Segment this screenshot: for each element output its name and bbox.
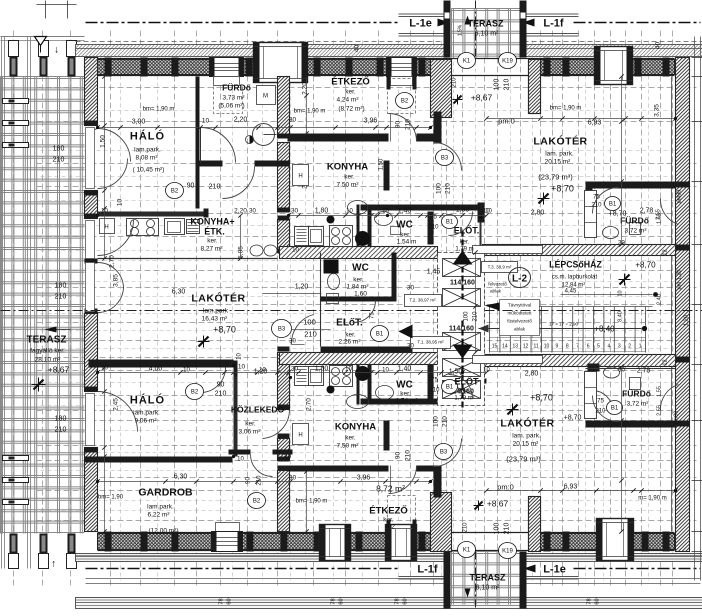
door elöt mid arc bbox=[291, 315, 313, 345]
svg-text:2,78: 2,78 bbox=[637, 368, 651, 375]
door b3 bottom bbox=[434, 439, 462, 467]
bottom roof overhang band bbox=[76, 554, 702, 562]
svg-text:L-2: L-2 bbox=[512, 274, 527, 285]
svg-text:180: 180 bbox=[55, 416, 67, 423]
terrace axis dashdot bbox=[475, 1, 477, 58]
terrace posts top bbox=[9, 41, 19, 57]
közlekedő west wall bbox=[234, 369, 238, 457]
svg-text:lam. park.: lam. park. bbox=[545, 151, 574, 158]
fürdő top-left block walls bbox=[196, 77, 200, 167]
T.2 box bbox=[405, 295, 442, 307]
kitchen top-left stove+sink bbox=[127, 219, 159, 236]
bottom terrace bbox=[451, 552, 520, 598]
svg-text:(8,72 m²): (8,72 m²) bbox=[338, 106, 364, 113]
kitchen top-right row bbox=[295, 227, 309, 246]
fürdő right-bottom fixtures bbox=[604, 367, 620, 378]
svg-text:↓: ↓ bbox=[54, 45, 59, 56]
svg-text:TERASZ: TERASZ bbox=[468, 19, 505, 29]
svg-text:3,72 m²: 3,72 m² bbox=[624, 228, 647, 235]
svg-text:bm= 1,90: bm= 1,90 bbox=[98, 495, 124, 501]
svg-text:2: 2 bbox=[628, 344, 631, 350]
T.1 box bbox=[411, 337, 451, 349]
roof jog lines at terrace top bbox=[399, 13, 447, 15]
svg-text:ker.: ker. bbox=[460, 240, 470, 246]
svg-text:16,43 m²: 16,43 m² bbox=[202, 316, 228, 323]
svg-text:8,08 m²: 8,08 m² bbox=[135, 155, 158, 162]
svg-text:B2: B2 bbox=[401, 99, 409, 105]
svg-text:(12,00 m²): (12,00 m²) bbox=[149, 528, 179, 535]
svg-text:78: 78 bbox=[331, 598, 337, 604]
svg-text:10: 10 bbox=[237, 457, 244, 463]
svg-text:30: 30 bbox=[618, 368, 625, 374]
svg-text:3,06 m²: 3,06 m² bbox=[238, 429, 261, 436]
window W1 top (fürdő) bbox=[210, 58, 244, 77]
svg-text:2,45: 2,45 bbox=[113, 398, 120, 411]
wall piers top bbox=[105, 58, 112, 77]
svg-text:L-1e: L-1e bbox=[409, 18, 432, 30]
svg-text:1,54 m²: 1,54 m² bbox=[395, 398, 418, 405]
junction dots bbox=[96, 214, 99, 217]
svg-text:5: 5 bbox=[597, 344, 600, 350]
fürdő right top walls bbox=[586, 182, 676, 189]
svg-text:1,55: 1,55 bbox=[657, 386, 663, 397]
door háló top-left double bbox=[98, 129, 131, 162]
stair number boxes bbox=[490, 338, 646, 352]
svg-text:75: 75 bbox=[597, 399, 604, 405]
wall étkező east top bbox=[434, 112, 442, 144]
door fürdő right-bottom bbox=[593, 396, 619, 422]
svg-text:pm:0: pm:0 bbox=[498, 117, 515, 126]
svg-text:B1: B1 bbox=[446, 385, 454, 391]
door lakótér left double bbox=[98, 263, 124, 289]
svg-text:1,45: 1,45 bbox=[427, 269, 441, 276]
section line L-1 bottom bbox=[86, 568, 400, 570]
svg-text:30: 30 bbox=[289, 339, 296, 345]
svg-text:210: 210 bbox=[504, 79, 511, 91]
svg-text:30: 30 bbox=[291, 366, 299, 373]
svg-text:2,80: 2,80 bbox=[531, 210, 545, 217]
svg-text:210: 210 bbox=[428, 225, 439, 231]
door fürdő right-top bbox=[593, 188, 619, 214]
svg-text:8,40: 8,40 bbox=[618, 311, 624, 322]
door b3 top bbox=[434, 143, 462, 171]
lakótér right-bottom partial wall bbox=[467, 359, 473, 384]
door háló bottom in wall bbox=[201, 368, 226, 393]
svg-text:78: 78 bbox=[395, 598, 401, 604]
svg-text:H: H bbox=[104, 225, 108, 231]
wc/elot mid block west boundary bbox=[320, 253, 322, 347]
svg-text:3,96: 3,96 bbox=[357, 475, 371, 482]
svg-text:7,50 m²: 7,50 m² bbox=[336, 182, 359, 189]
slope arrow bbox=[465, 16, 471, 25]
svg-text:lam.park.: lam.park. bbox=[133, 410, 160, 417]
boiler black top bbox=[355, 231, 370, 246]
svg-text:HÁLÓ: HÁLÓ bbox=[130, 130, 165, 143]
H radiator box top-left bbox=[100, 219, 115, 234]
dimension chains with ticks bbox=[98, 127, 431, 129]
wc mid east wall bbox=[392, 253, 397, 302]
svg-text:10: 10 bbox=[618, 290, 624, 296]
svg-text:78: 78 bbox=[587, 598, 593, 604]
svg-text:30: 30 bbox=[289, 475, 297, 482]
svg-text:KONYHA+: KONYHA+ bbox=[190, 217, 234, 227]
svg-text:210: 210 bbox=[405, 450, 412, 461]
svg-text:lam.park.: lam.park. bbox=[134, 147, 161, 154]
svg-text:210: 210 bbox=[405, 119, 412, 130]
svg-text:6,10 m²: 6,10 m² bbox=[476, 585, 500, 592]
black unit left of WC mid bbox=[324, 260, 339, 274]
wall háló/gardrob bottom-left bbox=[85, 457, 233, 463]
svg-text:1,60: 1,60 bbox=[354, 291, 367, 298]
svg-text:TERASZ: TERASZ bbox=[27, 335, 67, 346]
window W7 bottom bbox=[386, 525, 417, 561]
svg-text:T.2. 38,97 m²: T.2. 38,97 m² bbox=[409, 298, 436, 303]
svg-text:(23,79 m³): (23,79 m³) bbox=[506, 455, 541, 464]
svg-text:1,5%: 1,5% bbox=[458, 24, 464, 36]
svg-text:1,40: 1,40 bbox=[398, 208, 412, 215]
svg-text:30: 30 bbox=[291, 208, 299, 215]
door konyha-étk left bbox=[98, 220, 134, 256]
svg-text:B2: B2 bbox=[253, 499, 261, 505]
svg-text:1,50: 1,50 bbox=[100, 135, 107, 148]
svg-text:90: 90 bbox=[395, 121, 402, 129]
svg-text:B3: B3 bbox=[441, 156, 449, 162]
wc toilet bottom bbox=[376, 386, 394, 400]
svg-text:1,84 m²: 1,84 m² bbox=[346, 284, 369, 291]
survey marker triangle bbox=[35, 37, 47, 46]
svg-text:KÖZLEKEDŐ: KÖZLEKEDŐ bbox=[231, 404, 285, 415]
svg-text:10: 10 bbox=[117, 199, 124, 207]
K1 K19 markers bbox=[458, 53, 476, 69]
svg-text:10: 10 bbox=[483, 209, 490, 215]
svg-text:KONYHA: KONYHA bbox=[327, 162, 368, 173]
svg-text:K19: K19 bbox=[502, 549, 513, 555]
svg-text:WC: WC bbox=[396, 380, 413, 391]
svg-text:2,20: 2,20 bbox=[234, 117, 248, 124]
svg-text:bm= 1,90 m: bm= 1,90 m bbox=[143, 107, 175, 113]
svg-text:bm= 1,90 m: bm= 1,90 m bbox=[296, 499, 328, 505]
svg-text:30: 30 bbox=[289, 117, 297, 124]
svg-text:180: 180 bbox=[53, 146, 65, 153]
svg-text:ker.: ker. bbox=[383, 517, 394, 524]
svg-text:L-1e: L-1e bbox=[543, 564, 566, 576]
svg-text:6: 6 bbox=[587, 344, 590, 350]
svg-text:7,50 m²: 7,50 m² bbox=[336, 443, 359, 450]
svg-text:1,40: 1,40 bbox=[398, 366, 412, 373]
svg-text:pm 1,20: pm 1,20 bbox=[677, 270, 683, 290]
svg-text:bm= 1,90 m: bm= 1,90 m bbox=[550, 106, 582, 112]
svg-text:10: 10 bbox=[259, 368, 266, 374]
bay window W8 bottom right bbox=[597, 519, 634, 561]
bay window W2 top bbox=[254, 43, 308, 83]
svg-text:90: 90 bbox=[217, 382, 225, 389]
mid elot north wall bbox=[321, 297, 397, 302]
svg-text:6,10 m²: 6,10 m² bbox=[475, 31, 499, 38]
svg-text:8,27 m²: 8,27 m² bbox=[200, 246, 223, 253]
svg-text:2,80: 2,80 bbox=[525, 371, 539, 378]
exterior wall bottom band bbox=[98, 534, 212, 550]
svg-text:(5,06 m²): (5,06 m²) bbox=[218, 103, 244, 110]
svg-text:K1: K1 bbox=[463, 59, 471, 65]
svg-text:30: 30 bbox=[407, 344, 414, 350]
svg-text:2,55: 2,55 bbox=[656, 209, 662, 220]
svg-text:T.1. 38,95 m²: T.1. 38,95 m² bbox=[417, 340, 444, 345]
svg-text:2,55: 2,55 bbox=[657, 405, 663, 416]
svg-text:1,79 m²: 1,79 m² bbox=[454, 396, 474, 402]
T.3 box bbox=[482, 262, 518, 273]
svg-text:20,15 m²: 20,15 m² bbox=[513, 441, 539, 448]
svg-text:10: 10 bbox=[238, 364, 246, 371]
svg-text:pm90: pm90 bbox=[674, 411, 680, 425]
svg-text:L-1f: L-1f bbox=[543, 18, 564, 30]
konyha+étk / lakótér boundary line bbox=[98, 258, 278, 260]
svg-text:m= 1,90 m: m= 1,90 m bbox=[638, 496, 667, 502]
svg-text:ablak: ablak bbox=[514, 327, 526, 332]
svg-text:10: 10 bbox=[382, 209, 389, 215]
svg-text:10: 10 bbox=[544, 344, 550, 350]
svg-text:ker.: ker. bbox=[245, 421, 256, 428]
level star symbol bbox=[32, 378, 46, 392]
right dimension strip bbox=[694, 37, 696, 581]
svg-text:20,15 m²: 20,15 m² bbox=[545, 159, 571, 166]
svg-text:2,26 m²: 2,26 m² bbox=[338, 339, 361, 346]
svg-text:3,73 m²: 3,73 m² bbox=[222, 95, 245, 102]
svg-text:↑: ↑ bbox=[51, 559, 56, 570]
svg-text:+8,67: +8,67 bbox=[487, 499, 509, 509]
window sills bbox=[214, 77, 240, 86]
svg-text:100: 100 bbox=[464, 311, 470, 322]
exterior wall top band bbox=[98, 60, 210, 75]
door közlekedő-konyha in party wall bbox=[263, 410, 290, 439]
svg-text:90: 90 bbox=[395, 452, 402, 460]
svg-text:GARDROB: GARDROB bbox=[138, 487, 193, 499]
svg-text:15: 15 bbox=[492, 344, 498, 350]
svg-text:lam.park.: lam.park. bbox=[147, 504, 174, 511]
svg-text:10: 10 bbox=[183, 368, 190, 374]
svg-text:100: 100 bbox=[436, 183, 443, 194]
svg-text:+8,70: +8,70 bbox=[635, 261, 656, 270]
svg-text:LAKÓTÉR: LAKÓTÉR bbox=[500, 417, 554, 430]
svg-text:11: 11 bbox=[533, 344, 538, 350]
svg-text:8: 8 bbox=[566, 344, 569, 350]
WC/előtér block bottom walls bbox=[361, 399, 484, 405]
svg-text:FÜRDő: FÜRDő bbox=[622, 389, 651, 399]
svg-text:B2: B2 bbox=[191, 390, 199, 396]
svg-text:210: 210 bbox=[53, 157, 65, 164]
svg-text:10: 10 bbox=[292, 248, 299, 254]
svg-text:10: 10 bbox=[483, 368, 490, 374]
wc toilet mid bbox=[328, 274, 340, 290]
svg-text:ker.: ker. bbox=[345, 435, 356, 442]
svg-text:10: 10 bbox=[101, 366, 108, 372]
svg-text:30: 30 bbox=[284, 454, 292, 461]
közlekedő east opening wall bbox=[229, 450, 251, 455]
svg-text:B1: B1 bbox=[611, 406, 619, 412]
M box bbox=[257, 86, 276, 105]
svg-text:ker.: ker. bbox=[345, 332, 356, 339]
svg-text:3: 3 bbox=[618, 344, 621, 350]
svg-text:40: 40 bbox=[354, 45, 361, 53]
svg-text:40: 40 bbox=[655, 42, 662, 50]
svg-text:100: 100 bbox=[433, 416, 440, 427]
svg-text:B3: B3 bbox=[440, 450, 448, 456]
svg-text:10: 10 bbox=[101, 209, 108, 215]
down arrow bbox=[453, 345, 473, 359]
svg-text:TERASZ: TERASZ bbox=[470, 573, 507, 583]
svg-text:7: 7 bbox=[576, 344, 579, 350]
svg-text:ker.: ker. bbox=[353, 277, 364, 284]
wall piers bottom bbox=[105, 532, 112, 552]
svg-text:2,78: 2,78 bbox=[640, 208, 654, 215]
svg-text:210: 210 bbox=[442, 416, 449, 427]
door fürdő top-left bbox=[201, 128, 236, 163]
window W6 bottom bbox=[320, 525, 351, 561]
svg-text:4,45: 4,45 bbox=[565, 289, 577, 295]
svg-text:füstelvezető: füstelvezető bbox=[507, 319, 532, 324]
svg-text:felvezető: felvezető bbox=[488, 282, 507, 287]
svg-text:210: 210 bbox=[452, 77, 458, 88]
svg-text:3,72 m²: 3,72 m² bbox=[626, 401, 649, 408]
svg-text:10: 10 bbox=[202, 118, 210, 125]
WC/előtér block top walls bbox=[361, 205, 484, 211]
svg-text:6,93: 6,93 bbox=[588, 120, 602, 127]
svg-text:M: M bbox=[263, 94, 268, 100]
fürdő right bottom walls bbox=[586, 421, 676, 428]
svg-text:6,93: 6,93 bbox=[564, 484, 578, 491]
svg-text:2,70: 2,70 bbox=[306, 398, 313, 411]
wall háló/konyha top-left bbox=[98, 212, 206, 217]
svg-text:30: 30 bbox=[249, 209, 256, 215]
svg-text:4: 4 bbox=[608, 344, 611, 350]
svg-text:10: 10 bbox=[237, 353, 243, 360]
bay window W4 top right bbox=[595, 47, 633, 85]
svg-text:4,24 m²: 4,24 m² bbox=[336, 97, 359, 104]
svg-text:+8,70: +8,70 bbox=[551, 184, 574, 194]
svg-text:4,2: 4,2 bbox=[386, 524, 395, 531]
boiler black bottom bbox=[355, 366, 370, 381]
svg-text:működtetett: működtetett bbox=[507, 311, 532, 316]
door étkező-konyha bottom bbox=[389, 466, 417, 494]
left terrace floor grid bbox=[1, 77, 85, 534]
lakótér right sideboard top bbox=[473, 356, 543, 364]
konyha/étkező divider bottom-center bbox=[288, 466, 389, 472]
wall étkező east bottom bbox=[434, 466, 442, 498]
svg-text:3,00: 3,00 bbox=[132, 119, 146, 126]
svg-text:114/160: 114/160 bbox=[450, 280, 475, 287]
svg-text:13: 13 bbox=[513, 344, 519, 350]
svg-text:9,06 m²: 9,06 m² bbox=[134, 418, 157, 425]
svg-text:ker.: ker. bbox=[344, 174, 355, 181]
svg-text:2,20: 2,20 bbox=[302, 82, 309, 95]
H radiator box top bbox=[293, 165, 309, 186]
svg-text:ker.: ker. bbox=[400, 232, 411, 239]
svg-text:ablak: ablak bbox=[490, 289, 502, 294]
lakótér wardrobe column bottom-right bbox=[585, 372, 597, 419]
svg-text:B1: B1 bbox=[446, 220, 454, 226]
terasz small arrow bbox=[45, 327, 57, 333]
window W3 top bbox=[387, 58, 417, 77]
svg-text:12: 12 bbox=[663, 249, 669, 255]
svg-text:K19: K19 bbox=[502, 59, 513, 65]
svg-text:1,79 m: 1,79 m bbox=[455, 247, 473, 253]
svg-text:2,40: 2,40 bbox=[657, 294, 663, 305]
svg-text:180: 180 bbox=[55, 283, 67, 290]
svg-text:75: 75 bbox=[431, 378, 438, 384]
svg-text:1,54 m: 1,54 m bbox=[397, 239, 417, 246]
door leaf boxes left wall bbox=[86, 128, 95, 189]
svg-text:ÉTKEZŐ: ÉTKEZŐ bbox=[369, 505, 408, 517]
svg-text:LÉPCSőHÁZ: LÉPCSőHÁZ bbox=[549, 260, 602, 270]
door háló bottom-left bbox=[98, 392, 138, 432]
fürdő right-top fixtures bbox=[603, 227, 619, 239]
svg-text:210: 210 bbox=[209, 184, 221, 191]
svg-text:4,00: 4,00 bbox=[149, 366, 163, 373]
svg-text:14: 14 bbox=[502, 344, 508, 350]
svg-text:60: 60 bbox=[227, 598, 233, 604]
svg-text:100: 100 bbox=[494, 523, 501, 535]
svg-text:1,80: 1,80 bbox=[315, 208, 329, 215]
svg-text:210: 210 bbox=[473, 311, 479, 322]
svg-text:1,20: 1,20 bbox=[295, 284, 309, 291]
svg-text:fagyálló ker.: fagyálló ker. bbox=[30, 348, 65, 355]
svg-text:+8,67: +8,67 bbox=[48, 365, 70, 375]
svg-text:pm90: pm90 bbox=[677, 190, 683, 204]
svg-text:9: 9 bbox=[556, 344, 559, 350]
svg-text:90: 90 bbox=[187, 183, 195, 190]
svg-text:Távnyitóval: Távnyitóval bbox=[508, 303, 531, 308]
svg-text:10: 10 bbox=[382, 368, 389, 374]
window W5 bottom bbox=[212, 532, 243, 552]
svg-text:(23,79 m³): (23,79 m³) bbox=[538, 173, 573, 182]
svg-text:LAKÓTÉR: LAKÓTÉR bbox=[191, 292, 245, 305]
window W3 dashed niche bbox=[388, 79, 416, 114]
window W1 dashed niche bbox=[214, 86, 243, 114]
fridge hatched top-left bbox=[187, 220, 200, 234]
svg-text:bm= 1,90 m: bm= 1,90 m bbox=[294, 109, 326, 115]
door elöt top small bbox=[449, 212, 473, 236]
smoke vent text box bbox=[500, 300, 540, 336]
floor drain symbol bbox=[246, 136, 254, 144]
window W7 dashed niche bbox=[388, 496, 416, 529]
wc toilet top bbox=[375, 212, 393, 226]
svg-text:lam.park: lam.park bbox=[203, 308, 229, 315]
svg-text:60: 60 bbox=[339, 598, 345, 604]
svg-text:210: 210 bbox=[595, 409, 606, 415]
svg-text:114/160: 114/160 bbox=[449, 326, 474, 333]
svg-text:ÉTKEZŐ: ÉTKEZŐ bbox=[331, 76, 370, 88]
svg-text:6,30: 6,30 bbox=[172, 289, 186, 296]
door fürdő south bbox=[223, 167, 255, 199]
svg-text:ker.: ker. bbox=[460, 389, 470, 395]
svg-text:210: 210 bbox=[304, 330, 317, 339]
svg-text:210: 210 bbox=[429, 388, 440, 394]
svg-text:6,30: 6,30 bbox=[174, 474, 188, 481]
door elöt bottom small bbox=[449, 375, 473, 399]
svg-text:78: 78 bbox=[219, 598, 225, 604]
svg-text:3,96: 3,96 bbox=[364, 118, 378, 125]
svg-text:ker.: ker. bbox=[207, 238, 218, 245]
H radiator box bottom bbox=[293, 424, 309, 445]
svg-text:ker.: ker. bbox=[400, 391, 411, 398]
mid axis section line bbox=[1, 310, 438, 312]
svg-text:100: 100 bbox=[494, 79, 501, 91]
svg-text:8,72 m²: 8,72 m² bbox=[376, 484, 405, 494]
svg-text:2,20: 2,20 bbox=[234, 208, 247, 215]
svg-text:HÁLÓ: HÁLÓ bbox=[130, 394, 165, 407]
svg-text:210: 210 bbox=[215, 391, 227, 398]
svg-text:ÉTK.: ÉTK. bbox=[204, 227, 225, 237]
lakótér wardrobe column top-right bbox=[585, 191, 597, 238]
